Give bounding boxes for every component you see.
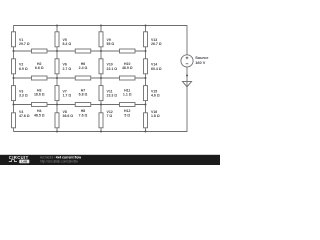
svg-text:22.1 Ω: 22.1 Ω — [107, 67, 118, 71]
svg-text:4.6 Ω: 4.6 Ω — [151, 93, 160, 97]
svg-text:6.6 Ω: 6.6 Ω — [35, 66, 44, 70]
svg-text:1.1 Ω: 1.1 Ω — [123, 93, 132, 97]
svg-text:36.6 Ω: 36.6 Ω — [63, 114, 74, 118]
svg-text:LAB: LAB — [21, 160, 27, 164]
svg-text:6.9 Ω: 6.9 Ω — [19, 67, 28, 71]
svg-text:47.6 Ω: 47.6 Ω — [19, 114, 30, 118]
svg-text:1.8 Ω: 1.8 Ω — [151, 114, 160, 118]
svg-text:2.4 Ω: 2.4 Ω — [79, 66, 88, 70]
svg-text:3.3 Ω: 3.3 Ω — [19, 93, 28, 97]
svg-text:48.9 Ω: 48.9 Ω — [122, 66, 133, 70]
svg-text:160 V: 160 V — [195, 60, 206, 65]
svg-text:http://circuitlab.com/c8vn5e: http://circuitlab.com/c8vn5e — [40, 160, 78, 164]
svg-text:60.4 Ω: 60.4 Ω — [151, 67, 162, 71]
svg-text:5 Ω: 5 Ω — [124, 113, 130, 117]
svg-text:29.7 Ω: 29.7 Ω — [19, 42, 30, 46]
svg-text:2.7 Ω: 2.7 Ω — [63, 67, 72, 71]
svg-text:7.6 Ω: 7.6 Ω — [79, 113, 88, 117]
svg-text:8.3 Ω: 8.3 Ω — [63, 42, 72, 46]
svg-text:1.7 Ω: 1.7 Ω — [63, 93, 72, 97]
svg-text:6.8 Ω: 6.8 Ω — [79, 93, 88, 97]
svg-text:55 Ω: 55 Ω — [107, 42, 115, 46]
svg-text:23.3 Ω: 23.3 Ω — [107, 93, 118, 97]
svg-text:48.5 Ω: 48.5 Ω — [34, 113, 45, 117]
svg-text:7 Ω: 7 Ω — [107, 114, 113, 118]
svg-text:26.7 Ω: 26.7 Ω — [151, 42, 162, 46]
svg-text:18.6 Ω: 18.6 Ω — [34, 93, 45, 97]
